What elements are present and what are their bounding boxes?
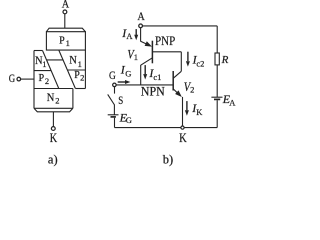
V2 label <box>184 80 195 95</box>
V1 collector lead <box>141 58 153 65</box>
V1 emitter lead (PNP arrow into base) <box>141 41 147 44</box>
V2 emitter lead (NPN arrow away from base) <box>173 89 177 93</box>
svg-text:1: 1 <box>78 59 82 69</box>
cathode K label <box>179 130 187 145</box>
right column right edge <box>84 50 86 88</box>
svg-text:c2: c2 <box>196 59 204 69</box>
P1 slab 3D roof <box>46 28 85 32</box>
wire battery EA to bottom-right corner <box>216 100 218 127</box>
svg-text:2: 2 <box>190 85 194 95</box>
V1 label <box>127 48 138 62</box>
current IK arrow <box>186 101 188 110</box>
current IG arrow <box>118 81 126 83</box>
svg-text:PNP: PNP <box>155 34 175 48</box>
battery EG long plate <box>108 114 119 116</box>
svg-text:2: 2 <box>55 96 59 106</box>
svg-text:G: G <box>109 68 116 82</box>
svg-text:c1: c1 <box>153 72 161 82</box>
P2 right region label <box>74 69 84 83</box>
svg-text:K: K <box>179 130 187 145</box>
V2 collector lead <box>173 71 181 78</box>
svg-text:A: A <box>137 9 145 23</box>
svg-text:R: R <box>221 54 229 66</box>
current Ic2 label <box>192 53 205 69</box>
left column top edge <box>34 50 43 52</box>
gate terminal G label <box>109 68 116 82</box>
N2 slab 3D bottom skirt <box>34 108 73 112</box>
wire V2 emitter down to K node <box>182 97 184 126</box>
subfigure label a) <box>48 152 58 166</box>
svg-text:A: A <box>229 97 236 107</box>
NPN label <box>141 85 165 99</box>
gate terminal circle <box>17 77 21 81</box>
svg-text:2: 2 <box>80 73 84 83</box>
transistor V1 base bar <box>151 41 153 64</box>
wire corner down to resistor <box>216 26 218 53</box>
anode terminal A label <box>137 9 145 23</box>
wire A down to V1 emitter <box>140 28 142 42</box>
switch upper stub wire <box>114 87 116 94</box>
left column N1/P2 divider <box>34 70 51 72</box>
svg-text:A: A <box>62 0 70 11</box>
K node circle <box>181 126 184 129</box>
svg-text:G: G <box>126 115 132 125</box>
svg-text:G: G <box>9 71 16 85</box>
svg-text:b): b) <box>163 152 173 166</box>
N2 region slab: top edge <box>34 88 73 90</box>
gate lead wire <box>21 78 34 80</box>
battery EA short plate <box>214 98 220 100</box>
oblique cut line of right slab <box>59 50 76 88</box>
left column left edge <box>33 51 35 109</box>
svg-text:A: A <box>126 31 133 41</box>
N1 left region label <box>35 55 47 69</box>
svg-text:P: P <box>59 34 65 46</box>
current IK label <box>191 101 203 117</box>
N2 slab bottom edge <box>34 107 73 109</box>
cathode wire <box>52 112 54 127</box>
svg-text:K: K <box>50 130 58 145</box>
svg-text:K: K <box>196 107 203 117</box>
N2 slab right edge <box>72 89 74 109</box>
current Ic2 arrow <box>187 52 189 62</box>
wire resistor to battery EA <box>216 65 218 97</box>
battery EG label <box>119 110 132 125</box>
bottom wire <box>115 127 218 129</box>
anode terminal A label <box>62 0 70 11</box>
wire A to top-right corner <box>143 25 218 27</box>
N1 right region label <box>69 55 82 69</box>
svg-text:P: P <box>39 72 45 84</box>
right column bottom edge <box>75 88 85 90</box>
gate lead wire to V2 base <box>116 84 173 86</box>
wire switch to battery EG <box>113 104 115 115</box>
svg-text:P: P <box>74 69 80 81</box>
wire battery EG to bottom wire <box>114 118 116 128</box>
switch S blade <box>108 94 115 104</box>
current IG label <box>120 62 132 78</box>
transistor V2 base bar <box>172 71 174 91</box>
svg-text:S: S <box>118 93 123 107</box>
battery EA label <box>222 92 236 108</box>
svg-text:1: 1 <box>134 52 138 62</box>
svg-text:N: N <box>47 92 55 104</box>
oblique cut line of left slab <box>43 51 59 89</box>
switch S label <box>118 93 123 107</box>
svg-text:2: 2 <box>45 76 49 86</box>
svg-text:N: N <box>69 55 77 67</box>
svg-text:G: G <box>125 69 131 79</box>
N2 label <box>47 92 60 106</box>
P1 label <box>59 34 70 48</box>
svg-text:1: 1 <box>66 38 70 48</box>
svg-text:NPN: NPN <box>141 85 165 99</box>
svg-text:a): a) <box>48 152 58 166</box>
anode wire <box>64 14 66 28</box>
current Ic1 label <box>148 66 161 82</box>
V1 base lead <box>152 51 181 53</box>
P1 region slab front face <box>46 32 85 50</box>
current IA label <box>121 26 133 41</box>
battery EA long plate <box>211 96 222 98</box>
current Ic1 arrow <box>144 65 146 74</box>
right column N1/P2 divider <box>68 69 86 71</box>
cathode terminal circle <box>51 127 55 131</box>
gate terminal G label <box>9 71 16 85</box>
PNP label <box>155 34 175 48</box>
N1/P2 junction inside oblique band <box>47 59 63 61</box>
battery EG short plate <box>111 116 116 118</box>
current IA arrow <box>135 29 137 35</box>
subfigure label b) <box>163 152 173 166</box>
cathode terminal K label <box>50 130 58 145</box>
anode terminal circle <box>63 10 67 14</box>
P2 left region label <box>39 72 50 86</box>
svg-text:1: 1 <box>42 59 46 69</box>
resistor R label <box>221 54 229 66</box>
anode terminal circle <box>139 24 143 28</box>
resistor R body <box>215 53 219 65</box>
gate terminal circle <box>113 83 117 87</box>
wire V1 collector down to gate node <box>140 65 142 85</box>
wire V1 base corner down to V2 collector <box>180 52 182 72</box>
